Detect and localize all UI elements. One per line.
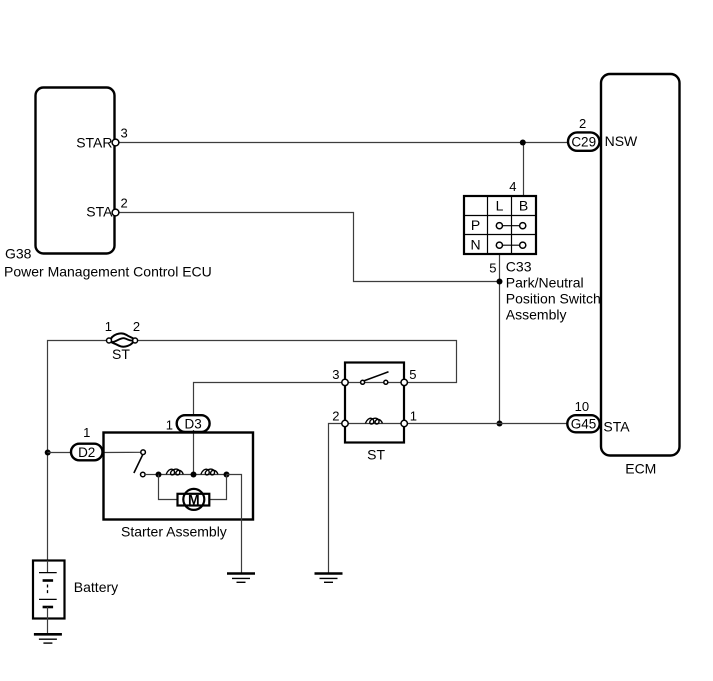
relay ST pin 2	[342, 420, 348, 426]
wire: battery positive to fuse ST pin1	[48, 341, 107, 561]
junction dot coil middle (D3 feed)	[191, 472, 197, 478]
pin number 1 (D3)	[166, 418, 173, 433]
svg-text:3: 3	[121, 126, 128, 141]
G38 pin name STAR	[76, 135, 112, 151]
svg-text:10: 10	[575, 399, 589, 414]
svg-text:5: 5	[409, 367, 416, 382]
svg-text:D2: D2	[78, 445, 95, 460]
relay ST pin 1	[401, 420, 407, 426]
battery	[33, 561, 65, 619]
svg-text:N: N	[470, 237, 480, 253]
pin number 1 (D2)	[83, 425, 90, 440]
relay ST pin 5	[401, 379, 407, 385]
svg-text:B: B	[519, 198, 528, 214]
pin number 10 (G45)	[575, 399, 589, 414]
C33 row label P	[471, 217, 480, 233]
ECM box	[601, 74, 680, 456]
wire: motor branch right	[209, 475, 226, 500]
ground (battery)	[34, 634, 62, 643]
svg-text:C29: C29	[571, 134, 596, 149]
C33 column header B	[519, 198, 528, 214]
junction dot coil right	[224, 472, 230, 478]
relay ST coil	[348, 418, 401, 424]
G38 pin 2 circle	[112, 209, 119, 216]
label G38	[5, 246, 32, 262]
wire: D3 into starter coil junction	[193, 430, 195, 475]
pin number 2 (relay)	[332, 409, 339, 424]
C33 row label N	[470, 237, 480, 253]
connector G45 oval	[567, 415, 599, 432]
svg-text:2: 2	[579, 116, 586, 131]
wire: starter switch to coil junction	[145, 474, 158, 476]
pin number 5 (relay)	[409, 367, 416, 382]
junction dot pin5 net / STA wire to ECM G45	[497, 421, 503, 427]
wire: G38 STA pin2 to C33 pin5 net	[119, 213, 500, 282]
G38 pin 3 circle	[112, 139, 119, 146]
label ST (relay)	[367, 447, 385, 463]
svg-text:Assembly: Assembly	[506, 307, 567, 323]
svg-text:Battery: Battery	[74, 579, 118, 595]
svg-text:Starter Assembly: Starter Assembly	[121, 524, 227, 540]
svg-text:1: 1	[105, 319, 112, 334]
ECM pin name NSW	[605, 133, 638, 149]
svg-text:G45: G45	[571, 417, 597, 432]
label Park/Neutral Position Switch Assembly	[506, 275, 601, 323]
wire: junction to C33 pin4 (B column)	[523, 143, 525, 197]
relay ST pin 3	[342, 379, 348, 385]
wire: coil run baseline	[159, 474, 227, 476]
pin number 4 (C33)	[509, 179, 516, 194]
svg-text:ECM: ECM	[625, 461, 656, 477]
svg-text:Park/Neutral: Park/Neutral	[506, 275, 584, 291]
C33 N-row contact pair	[496, 242, 526, 248]
C33 park/neutral position switch table	[464, 196, 536, 254]
svg-text:2: 2	[121, 196, 128, 211]
ECM pin name STA	[603, 419, 630, 435]
svg-text:Position Switch: Position Switch	[506, 291, 601, 307]
svg-text:D3: D3	[184, 417, 201, 432]
svg-text:G38: G38	[5, 246, 32, 262]
svg-text:L: L	[496, 198, 504, 214]
relay ST box	[345, 363, 404, 443]
wire: C33 pin5 vertical net	[499, 254, 501, 424]
pin number 1 (relay)	[410, 409, 417, 424]
wire: G38 STAR pin3 to ECM C29	[119, 142, 568, 144]
wire: relay ST pin3 to starter D3 connector	[194, 383, 342, 416]
wire: D2 to starter switch contact	[103, 451, 142, 453]
connector D2 oval	[71, 444, 103, 461]
pin number 2 (G38)	[121, 196, 128, 211]
pin number 2 (fuse)	[133, 319, 140, 334]
svg-text:1: 1	[166, 418, 173, 433]
junction dot coil left	[156, 472, 162, 478]
svg-text:STA: STA	[603, 419, 630, 435]
relay ST switch contacts and blade	[348, 372, 401, 385]
svg-text:P: P	[471, 217, 480, 233]
wire: motor branch left	[159, 475, 178, 500]
pin number 3 (relay)	[332, 367, 339, 382]
svg-text:STAR: STAR	[76, 135, 112, 151]
wire: starter to ground	[227, 475, 242, 574]
label C33	[506, 259, 532, 275]
connector D3 oval	[177, 415, 210, 432]
svg-text:C33: C33	[506, 259, 532, 275]
svg-text:5: 5	[489, 261, 496, 276]
starter assembly box	[104, 433, 254, 520]
G38 pin name STA	[86, 204, 113, 220]
svg-text:2: 2	[332, 409, 339, 424]
label Battery	[74, 579, 118, 595]
label Starter Assembly	[121, 524, 227, 540]
svg-text:M: M	[188, 491, 200, 507]
pin number 3 (G38)	[121, 126, 128, 141]
C33 P-row contact pair	[496, 223, 526, 229]
wire: relay ST pin1 to ECM G45 STA	[407, 423, 567, 425]
starter hold-in coil	[166, 469, 183, 475]
ground (ST relay)	[315, 574, 343, 583]
wire: fuse ST pin2 to relay ST pin5	[138, 341, 457, 383]
svg-text:Power Management Control ECU: Power Management Control ECU	[4, 264, 212, 280]
svg-text:STA: STA	[86, 204, 113, 220]
wire: battery negative to ground	[47, 619, 49, 635]
starter pull-in coil	[201, 469, 218, 475]
starter switch contacts and blade	[134, 450, 146, 477]
C33 column header L	[496, 198, 504, 214]
ground (starter assembly)	[227, 574, 255, 583]
fuse ST	[107, 333, 138, 346]
svg-text:1: 1	[410, 409, 417, 424]
svg-text:4: 4	[509, 179, 516, 194]
starter motor M	[178, 489, 210, 510]
svg-text:1: 1	[83, 425, 90, 440]
label ST (fuse)	[112, 346, 130, 362]
label Power Management Control ECU	[4, 264, 212, 280]
junction dot battery / D2 branch	[45, 450, 51, 456]
svg-text:NSW: NSW	[605, 133, 638, 149]
pin number 2 (C29)	[579, 116, 586, 131]
G38 Power Management Control ECU box	[36, 88, 115, 254]
wire: junction to starter D2 connector	[48, 452, 72, 454]
svg-text:ST: ST	[112, 346, 130, 362]
pin number 5 (C33)	[489, 261, 496, 276]
svg-text:ST: ST	[367, 447, 385, 463]
svg-text:2: 2	[133, 319, 140, 334]
junction dot on STAR/NSW net	[520, 140, 526, 146]
pin number 1 (fuse)	[105, 319, 112, 334]
label ECM	[625, 461, 656, 477]
connector C29 oval	[568, 132, 600, 150]
junction dot STA wire / pin5 net	[497, 279, 503, 285]
svg-text:3: 3	[332, 367, 339, 382]
wire: relay ST pin2 to ground	[329, 424, 342, 574]
